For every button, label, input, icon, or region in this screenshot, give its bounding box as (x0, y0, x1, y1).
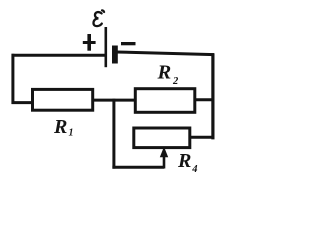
svg-text:R: R (53, 116, 67, 138)
wire right vertical side (211, 53, 214, 139)
resistor R2 (135, 89, 195, 113)
node A junction vertical wire down to wiper (112, 99, 115, 169)
minus sign polarity label (121, 42, 136, 45)
wire from battery negative plate to top-right corner (117, 52, 215, 55)
svg-text:2: 2 (172, 76, 179, 87)
svg-text:1: 1 (69, 128, 74, 139)
svg-text:4: 4 (191, 164, 197, 175)
wire bottom run to wiper arrow (112, 166, 164, 169)
battery U1 long positive plate (105, 27, 108, 67)
rheostat R4 body (134, 128, 190, 148)
svg-text:R: R (177, 150, 191, 172)
wire from R2 right terminal to right side (194, 98, 213, 101)
wire into R1 left terminal (12, 101, 34, 104)
resistor R1 (33, 89, 93, 110)
wire from R4 right terminal to right side (189, 136, 214, 139)
svg-text:R: R (157, 61, 172, 83)
wire from R1 right terminal to node A (93, 99, 136, 102)
label EMF script E (93, 10, 104, 26)
wire left vertical side (11, 54, 14, 104)
plus sign polarity label (83, 34, 96, 51)
wiper arrow of rheostat (160, 147, 168, 169)
battery U1 short negative plate (112, 46, 118, 64)
wire from battery positive plate to top-left corner (12, 54, 106, 57)
